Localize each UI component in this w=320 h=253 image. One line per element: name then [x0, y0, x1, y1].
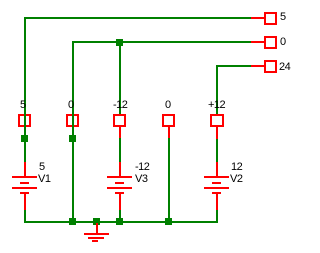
battery V2 plate long 2 — [204, 187, 229, 189]
label port P4 value 0 — [165, 100, 171, 111]
pin stub below port P5 (red) — [216, 127, 218, 139]
junction J2 (below port P2) — [69, 135, 76, 142]
battery V1 bottom lead — [24, 193, 26, 210]
wire row2 horizontal (node 0) — [72, 41, 252, 43]
wire column2 vertical (x=72, through port P2 to bus) — [72, 41, 74, 223]
wire row1 horizontal (node 5) — [24, 17, 252, 19]
wire bottom bus horizontal — [24, 221, 218, 223]
port square PR1 (node 5, right) — [264, 12, 277, 25]
battery V2 bottom lead — [216, 193, 218, 210]
port square P4 (node 0, middle row) — [162, 114, 175, 127]
pin stub below port P4 (red) — [168, 127, 170, 138]
pin stub below port P3 (red) — [119, 127, 121, 138]
wire column5 middle (P5 pin to V2) — [216, 139, 218, 163]
port square P2 (node 0, middle row) — [66, 114, 79, 127]
ground stem — [96, 223, 98, 234]
wire column3 upper (junction J3 to port P3) — [119, 41, 121, 114]
junction J4 (bus at x=72) — [69, 218, 76, 225]
label right port value 24 — [279, 62, 290, 73]
wire column1 vertical upper (x=24, through port P1) — [24, 17, 26, 163]
battery V3 plate long 1 — [107, 176, 132, 178]
ground bar 2 — [88, 237, 104, 239]
label right port value 5 — [280, 12, 286, 23]
battery V3 plate short 2 — [115, 192, 124, 194]
label V2 value 12 — [231, 162, 242, 173]
port square P3 (node -12, middle row) — [113, 114, 126, 127]
port square P1 (node 5, middle row) — [18, 114, 31, 127]
battery V1 top lead — [24, 162, 26, 178]
battery V1 plate long 2 — [12, 187, 37, 189]
ground bar 1 — [84, 233, 109, 235]
battery V2 plate short 2 — [212, 192, 221, 194]
label port P3 value -12 — [113, 100, 127, 111]
pin stub row3 (red, to right port 24) — [251, 65, 264, 67]
pin stub row2 (red, to right port 0) — [251, 41, 264, 43]
ground bar 3 — [92, 240, 98, 242]
battery V1 plate short 1 — [20, 182, 29, 184]
label right port value 0 — [280, 37, 286, 48]
wire row3 horizontal (node 24) — [216, 65, 252, 67]
battery V3 top lead — [119, 162, 121, 178]
wire column5 lower (V2 bottom to bus) — [216, 210, 218, 223]
battery V3 bottom lead — [119, 193, 121, 210]
wire column3 lower (V3 bottom to bus) — [119, 210, 121, 223]
junction J1 (below port P1) — [21, 135, 28, 142]
pin stub row1 (red, to right port 5) — [251, 17, 264, 19]
label V2 name — [230, 174, 242, 185]
port square PR2 (node 0, right) — [264, 36, 277, 49]
label V3 name — [135, 174, 147, 185]
wire column4 vertical (P4 pin to bus) — [168, 138, 170, 223]
junction J5 (bus at ground) — [93, 218, 100, 225]
wire column1 vertical lower (V1 bottom to bus) — [24, 210, 26, 223]
label V1 value 5 — [39, 162, 45, 173]
port square P5 (node +12, middle row) — [210, 114, 224, 127]
battery V3 plate short 1 — [115, 182, 124, 184]
label port P2 value 0 — [68, 100, 74, 111]
battery V2 plate long 1 — [204, 176, 229, 178]
wire column5 upper (row3 corner to port P5) — [216, 65, 218, 114]
wire column3 middle (P3 pin to V3) — [119, 138, 121, 163]
port square PR3 (node 24, right) — [264, 60, 277, 73]
battery V2 plate short 1 — [212, 182, 221, 184]
junction J7 (bus at x=168) — [165, 218, 172, 225]
label port P1 value 5 — [20, 100, 26, 111]
junction J3 (row2 at x=120) — [116, 39, 123, 46]
battery V1 plate long 1 — [12, 176, 37, 178]
label V1 name — [38, 174, 50, 185]
battery V2 top lead — [216, 162, 218, 178]
battery V1 plate short 2 — [20, 192, 29, 194]
battery V3 plate long 2 — [107, 187, 132, 189]
label port P5 value +12 — [208, 100, 225, 111]
junction J6 (bus at x=120) — [116, 218, 123, 225]
label V3 value -12 — [135, 162, 149, 173]
